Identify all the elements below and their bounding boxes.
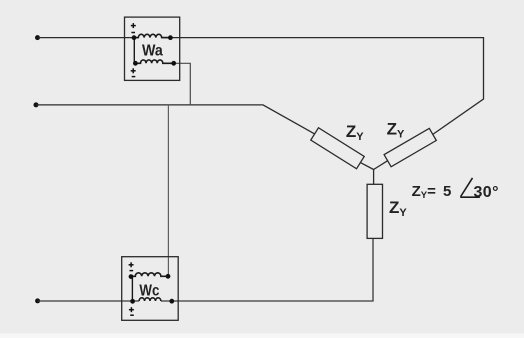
Wa internal link wire <box>133 38 135 64</box>
Wa dot voltage coil left <box>133 61 138 66</box>
Wc current coil <box>139 298 161 301</box>
angle symbol <box>460 178 480 197</box>
wire phase A: terminal to Wa coil <box>38 37 139 39</box>
Wc top polarity plus <box>129 262 134 267</box>
Wa dot voltage coil right <box>171 61 176 66</box>
wire: neutral node to ZY bottom <box>373 170 375 185</box>
wire: Wa voltage coil to phase B <box>174 63 191 105</box>
svg-text:5: 5 <box>443 183 451 200</box>
wire: ZY right to neutral node <box>374 161 388 170</box>
svg-text:30°: 30° <box>474 184 499 201</box>
Wa bottom polarity plus <box>131 68 136 73</box>
Wc dot voltage coil left <box>129 274 134 279</box>
Wc dot current coil right <box>169 299 174 304</box>
Wa dot current coil left <box>132 35 137 40</box>
node B <box>34 102 39 107</box>
svg-text:Wc: Wc <box>139 282 159 299</box>
wattmeter Wc box <box>122 257 179 321</box>
wire: ZY left to neutral node <box>360 163 373 170</box>
node A <box>35 35 40 40</box>
svg-text:Wa: Wa <box>142 42 163 59</box>
Wa dot current coil right <box>168 35 173 40</box>
Wa top polarity minus <box>131 32 135 34</box>
Wc bottom polarity minus <box>130 314 134 316</box>
Wc dot voltage coil right <box>166 274 171 279</box>
wire phase B: terminal to diagonal to ZY left <box>36 105 315 134</box>
Wa top polarity plus <box>131 23 136 28</box>
wire: phase B down to Wc voltage coil <box>167 105 169 276</box>
wire phase A: Wa coil to top-right corner, down, diagonal to ZY right <box>162 38 484 135</box>
wattmeter Wa box <box>125 17 180 80</box>
Wc voltage coil <box>131 273 168 277</box>
impedance ZY left <box>311 128 364 169</box>
wire: ZY bottom down and left to phase C <box>161 238 373 301</box>
Wc bottom polarity plus <box>129 307 134 312</box>
node C <box>35 298 40 303</box>
Wc top polarity minus <box>130 270 134 272</box>
Wc dot current coil left <box>130 299 135 304</box>
Wa bottom polarity minus <box>132 76 136 78</box>
Wc internal link wire <box>131 277 133 302</box>
wire phase C: terminal to Wc coil <box>38 300 140 302</box>
impedance ZY bottom <box>367 184 382 238</box>
Wa voltage coil <box>135 60 173 63</box>
Wa current coil <box>134 34 170 37</box>
impedance ZY right <box>384 128 436 166</box>
